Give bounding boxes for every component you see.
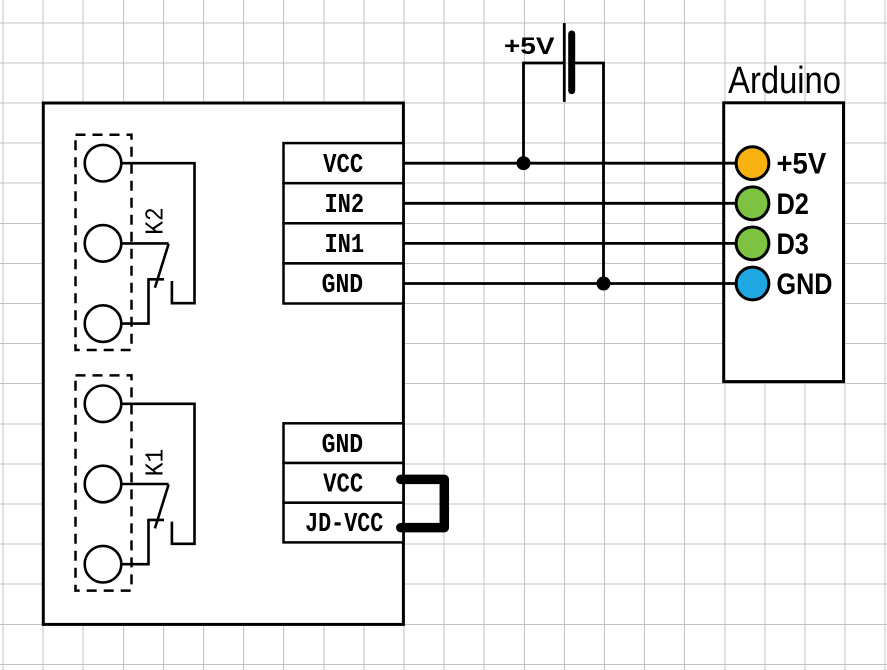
wire COM K2 (121, 242, 168, 245)
+5V supply right wire (575, 63, 604, 284)
terminal circle K1-NC (85, 546, 122, 583)
+5V supply left wire (524, 63, 564, 163)
Arduino pin D3 (736, 227, 769, 260)
wire NC contact K1 (121, 520, 148, 564)
battery short thick plate (568, 34, 575, 91)
jumper VCC to JD-VCC (401, 479, 445, 527)
Arduino box (724, 103, 844, 382)
svg-text:GND: GND (777, 268, 833, 301)
wire NC contact K2 (121, 279, 148, 323)
switch arm K1 (155, 485, 169, 529)
svg-text:IN2: IN2 (324, 191, 364, 221)
Arduino title (728, 60, 841, 102)
svg-text:K2: K2 (140, 207, 170, 235)
label K1 (140, 449, 170, 477)
pin header bottom group (284, 423, 404, 542)
wire VCC to Arduino +5V (403, 162, 735, 165)
svg-text:Arduino: Arduino (728, 60, 841, 102)
wire COM K1 (121, 483, 168, 486)
battery long plate (563, 23, 566, 102)
Arduino pin GND (736, 267, 769, 300)
label +5V supply (504, 33, 555, 60)
svg-text:D3: D3 (777, 228, 809, 261)
wire IN1 to Arduino D3 (403, 242, 735, 245)
svg-text:IN1: IN1 (324, 231, 364, 261)
relay K1 group (76, 375, 195, 590)
pin box VCC2 (284, 463, 404, 503)
pin box GND2 (284, 423, 404, 463)
terminal circle K2-NC (85, 305, 122, 342)
wire NO contact K2 (121, 163, 194, 303)
svg-text:VCC: VCC (323, 151, 363, 181)
wire NO contact K1 (121, 404, 194, 544)
Arduino pin D2 (736, 187, 769, 220)
wire GND to Arduino GND (403, 282, 735, 285)
svg-text:GND: GND (322, 271, 364, 301)
pin box VCC (284, 143, 404, 183)
terminal circle K1-COM (85, 466, 122, 503)
terminal circle K2-NO (85, 145, 122, 182)
NC tick K1 (147, 519, 164, 522)
svg-text:+5V: +5V (504, 33, 555, 60)
pin header top group (284, 143, 404, 303)
svg-text:+5V: +5V (777, 148, 827, 181)
relay module box (43, 103, 403, 624)
svg-text:JD-VCC: JD-VCC (305, 510, 383, 540)
Arduino pin +5V (736, 147, 769, 180)
terminal circle K1-NO (85, 386, 122, 423)
switch arm K2 (155, 244, 169, 288)
svg-text:K1: K1 (140, 449, 170, 477)
pin box IN2 (284, 183, 404, 223)
junction dot GND (597, 277, 611, 291)
wire IN2 to Arduino D2 (403, 202, 735, 205)
pin box IN1 (284, 223, 404, 263)
pin box GND (284, 263, 404, 303)
relay K2 group (76, 135, 195, 350)
label K2 (140, 207, 170, 235)
NC tick K2 (147, 278, 164, 281)
dashed terminal block K2 (76, 135, 132, 350)
junction dot VCC (517, 156, 531, 170)
terminal circle K2-COM (85, 225, 122, 262)
svg-text:VCC: VCC (323, 471, 363, 501)
dashed terminal block K1 (76, 375, 132, 590)
svg-text:GND: GND (322, 431, 364, 461)
pin box JD-VCC (284, 503, 404, 543)
svg-text:D2: D2 (777, 188, 809, 221)
